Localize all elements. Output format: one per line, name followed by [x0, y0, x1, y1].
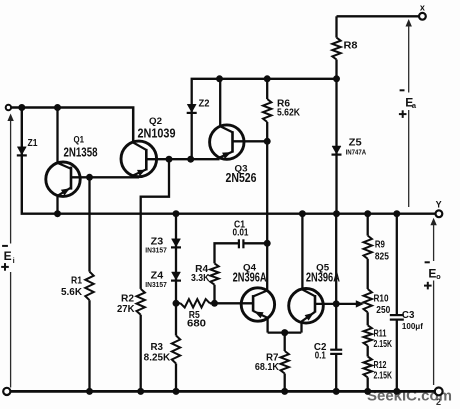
svg-text:R9: R9 [375, 239, 385, 250]
svg-text:o: o [436, 272, 441, 281]
svg-text:2.15K: 2.15K [374, 370, 393, 381]
svg-text:R8: R8 [344, 41, 359, 52]
svg-text:2N396A: 2N396A [233, 270, 267, 284]
svg-text:3.3K: 3.3K [191, 273, 210, 284]
svg-text:Y: Y [436, 199, 442, 209]
svg-text:i: i [13, 256, 15, 265]
svg-text:IN3157: IN3157 [145, 280, 167, 289]
svg-text:R11: R11 [374, 328, 387, 339]
svg-text:R1: R1 [71, 276, 82, 287]
svg-text:8.25K: 8.25K [144, 352, 171, 363]
svg-text:5.6K: 5.6K [61, 287, 82, 298]
svg-text:0.01: 0.01 [233, 228, 249, 239]
svg-text:5.62K: 5.62K [277, 107, 300, 118]
svg-text:2N1039: 2N1039 [138, 126, 176, 140]
svg-text:250: 250 [376, 305, 390, 316]
svg-text:825: 825 [375, 251, 389, 262]
svg-text:R2: R2 [121, 293, 135, 304]
svg-text:2.15K: 2.15K [374, 339, 393, 350]
svg-text:R3: R3 [151, 342, 164, 353]
svg-text:IN3157: IN3157 [145, 246, 167, 255]
svg-text:680: 680 [187, 318, 207, 329]
svg-text:R12: R12 [374, 360, 387, 371]
svg-text:Z1: Z1 [28, 138, 38, 149]
svg-text:Q1: Q1 [74, 135, 85, 146]
svg-text:Z2: Z2 [199, 98, 210, 109]
svg-text:0.1: 0.1 [315, 350, 326, 361]
svg-text:27K: 27K [117, 304, 135, 315]
svg-text:x: x [420, 2, 425, 12]
svg-text:E: E [4, 249, 12, 263]
svg-text:R10: R10 [374, 293, 389, 304]
svg-text:68.1K: 68.1K [255, 362, 279, 373]
svg-text:C3: C3 [402, 310, 415, 321]
svg-text:Z5: Z5 [349, 136, 362, 148]
svg-text:IN747A: IN747A [346, 149, 367, 156]
svg-text:2: 2 [436, 397, 441, 407]
svg-text:2N396A: 2N396A [306, 270, 340, 284]
svg-text:100μf: 100μf [402, 322, 423, 331]
svg-text:2N1358: 2N1358 [64, 145, 98, 159]
svg-text:2N526: 2N526 [226, 171, 257, 185]
